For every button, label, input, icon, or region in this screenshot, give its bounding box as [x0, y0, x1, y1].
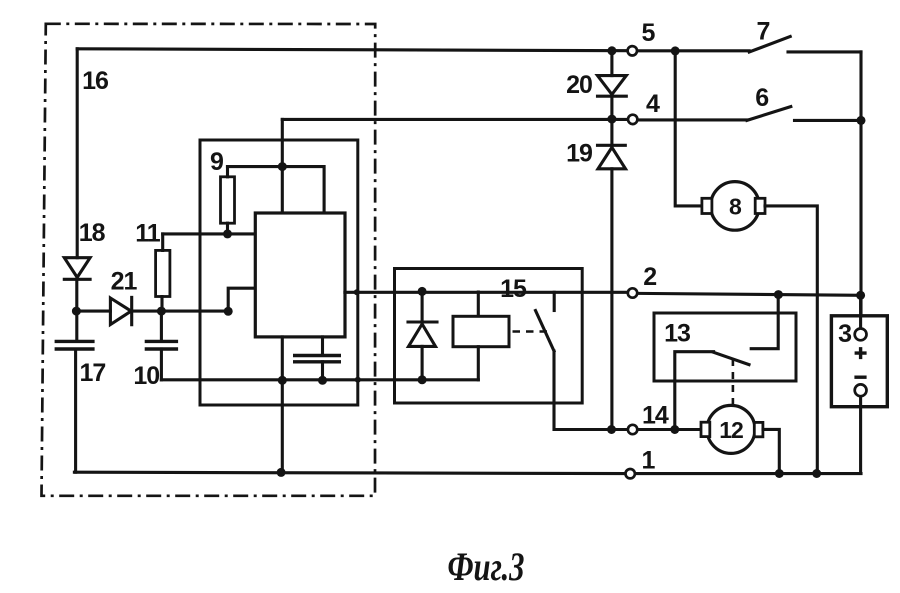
wire right vertical rail — [859, 52, 862, 316]
plus sign — [855, 347, 867, 359]
label 2 — [643, 263, 656, 291]
switch 13 blade — [714, 352, 749, 364]
svg-text:8: 8 — [729, 194, 742, 220]
relay coil — [453, 292, 509, 380]
relay flyback diode — [408, 291, 437, 379]
dash-dot enclosure box (unit 16 boundary) — [42, 24, 376, 496]
node at diode20 top — [607, 46, 616, 55]
diode 21 — [110, 297, 131, 324]
svg-text:6: 6 — [755, 84, 768, 112]
svg-text:3: 3 — [838, 320, 851, 348]
switch 7 blade — [749, 37, 790, 53]
svg-text:18: 18 — [79, 219, 106, 247]
svg-text:19: 19 — [566, 140, 592, 168]
label 3 — [838, 320, 851, 348]
svg-text:21: 21 — [111, 268, 138, 296]
node relay diode bottom — [418, 375, 427, 384]
svg-text:4: 4 — [646, 90, 660, 118]
node motor8 rail on bottom bus — [812, 469, 821, 478]
capacitor under IC — [293, 337, 341, 380]
wire motor 12 right to bottom bus — [763, 429, 779, 473]
svg-text:9: 9 — [210, 148, 223, 176]
wire ground bus y380 — [161, 378, 478, 381]
label 11 — [135, 220, 161, 248]
label 16 — [82, 67, 108, 95]
switch 13 right contact wire — [751, 295, 778, 349]
blob y292 crossing inner box edge — [354, 289, 360, 295]
minus sign — [854, 376, 866, 379]
switch 13 left contact wire — [675, 352, 714, 430]
node step corner — [224, 307, 233, 316]
relay contact blade — [536, 311, 555, 352]
diode 20 — [598, 51, 627, 119]
node terminal2 bus on right rail — [856, 291, 865, 300]
label 18 — [79, 219, 106, 247]
node on R9 link — [278, 162, 287, 171]
node switch13 left on 14 bus — [670, 425, 679, 434]
svg-text:13: 13 — [664, 320, 690, 348]
wire battery bottom lead — [859, 397, 862, 474]
motor 12 — [701, 405, 763, 453]
wire terminal 14 bus right — [638, 428, 701, 431]
node IC bottom on ground bus — [278, 376, 287, 385]
node IC vertical on bottom bus — [277, 468, 286, 477]
node R11/C10 junction — [157, 307, 166, 316]
wire IC top pin vertical — [281, 119, 284, 213]
terminal 4 — [628, 115, 637, 124]
diode 18 — [64, 258, 90, 342]
label 8 — [729, 194, 742, 220]
svg-text:5: 5 — [642, 19, 656, 47]
label 21 — [111, 268, 138, 296]
relay box 15 — [395, 269, 583, 404]
resistor R11 — [156, 234, 170, 311]
diode 19 — [598, 119, 626, 429]
IC block U — [255, 213, 345, 337]
label 13 — [664, 320, 690, 348]
node motor12 on bottom bus — [775, 469, 784, 478]
svg-text:2: 2 — [643, 263, 656, 291]
capacitor 17 — [55, 341, 95, 472]
wire motor 8 left branch — [675, 51, 702, 206]
label 14 — [642, 402, 669, 430]
wire terminal 4 bus right — [638, 118, 747, 121]
node motor8 branch on top bus — [671, 46, 680, 55]
dashed actuator link 13 to motor 12 — [732, 359, 735, 404]
terminal 5 — [628, 46, 637, 55]
terminal 14 — [628, 425, 637, 434]
wire terminal 2 bus right — [638, 293, 861, 295]
svg-text:11: 11 — [135, 220, 161, 248]
label 15 — [500, 275, 527, 303]
svg-text:10: 10 — [133, 362, 159, 390]
label 5 — [642, 19, 656, 47]
wire relay contact to terminal 14 bus — [554, 351, 627, 430]
switch 7 fixed contact wire — [788, 50, 861, 53]
relay contact: fixed — [553, 292, 556, 310]
label 1 — [642, 447, 656, 475]
wire signal bus y292 from IC to terminal 2 — [345, 291, 627, 294]
battery 3 box — [831, 316, 887, 407]
wire terminal 4 bus — [282, 118, 627, 121]
svg-text:1: 1 — [642, 447, 656, 475]
label 20 — [566, 71, 592, 99]
svg-text:15: 15 — [500, 275, 527, 303]
node left at y311 — [72, 307, 81, 316]
node relay diode top — [418, 287, 427, 296]
wire top bus right of terminal 5 — [638, 49, 749, 52]
battery plus terminal — [855, 329, 867, 341]
wire left vertical from top bus — [76, 49, 79, 258]
label 10 — [133, 362, 159, 390]
dashed actuator link coil to contact — [513, 330, 549, 333]
box 13 — [654, 313, 796, 381]
svg-text:16: 16 — [82, 67, 108, 95]
svg-text:17: 17 — [79, 359, 105, 387]
svg-text:20: 20 — [566, 71, 592, 99]
node diode chain at terminal 4 — [607, 115, 616, 124]
label 17 — [79, 359, 105, 387]
node R9 bottom on bus — [223, 229, 232, 238]
wire bottom bus right of terminal 1 — [636, 472, 861, 475]
label 7 — [757, 18, 770, 46]
node switch13 branch — [774, 290, 783, 299]
inner solid box around controller — [200, 140, 358, 405]
wire top bus from left corner to terminal 5 — [77, 49, 627, 51]
label 4 — [646, 90, 660, 118]
label 19 — [566, 140, 592, 168]
wire battery top lead — [859, 295, 862, 328]
switch 6 blade — [747, 107, 791, 121]
motor 8 — [702, 182, 765, 231]
svg-text:12: 12 — [719, 417, 743, 443]
wire motor 8 right branch down to bottom bus — [765, 206, 817, 474]
node switch6 on right rail — [857, 116, 866, 125]
svg-text:Фиг.3: Фиг.3 — [448, 544, 525, 589]
label 6 — [755, 84, 768, 112]
blob ground bus crossing inner box edge — [355, 377, 361, 383]
node cap bottom on ground bus — [318, 376, 327, 385]
wire bottom bus — [74, 472, 624, 473]
resistor R9 — [221, 167, 235, 234]
svg-text:7: 7 — [757, 18, 770, 46]
wire IC bottom vertical to bottom bus — [281, 337, 284, 472]
terminal 2 — [628, 288, 637, 297]
svg-text:14: 14 — [642, 402, 669, 430]
wire R9 top link — [228, 167, 325, 213]
wire pin bus y=234 — [163, 232, 256, 235]
terminal 1 — [626, 469, 635, 478]
label 12 — [719, 417, 743, 443]
wire y311 bus right + step into IC — [132, 288, 256, 311]
caption Фиг.3 — [448, 544, 525, 589]
capacitor 10 — [145, 311, 178, 380]
wire y311 bus left — [76, 310, 110, 313]
battery minus terminal — [855, 384, 867, 396]
switch 6 fixed contact wire — [795, 119, 862, 122]
node diode rail at 14 bus — [607, 425, 616, 434]
label 9 — [210, 148, 223, 176]
